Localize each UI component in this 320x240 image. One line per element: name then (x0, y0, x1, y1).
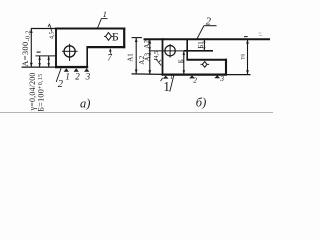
svg-text:Б: Б (177, 59, 185, 63)
svg-text:2: 2 (193, 76, 197, 85)
svg-text:4,5: 4,5 (50, 32, 56, 40)
svg-text:2: 2 (206, 17, 212, 28)
svg-text:А3: А3 (144, 52, 152, 61)
svg-text:7: 7 (107, 53, 112, 63)
svg-text:Тб: Тб (241, 54, 246, 60)
svg-text:Б: Б (112, 29, 119, 43)
svg-text:Б=100+0,15: Б=100+0,15 (37, 74, 46, 112)
svg-text:2: 2 (58, 79, 64, 90)
svg-text:4,5: 4,5 (154, 51, 160, 59)
svg-text:1: 1 (170, 74, 173, 81)
svg-text:1: 1 (103, 9, 107, 19)
svg-text:3: 3 (219, 74, 224, 83)
svg-text:1: 1 (65, 72, 70, 82)
svg-text:А2: А2 (143, 40, 151, 49)
svg-text:1: 1 (163, 79, 170, 94)
svg-text:А1: А1 (127, 53, 135, 62)
svg-text:2: 2 (75, 71, 80, 81)
svg-text:б): б) (196, 96, 206, 110)
svg-text:а): а) (80, 97, 90, 111)
svg-text:3: 3 (85, 71, 91, 81)
svg-text:А=300-0,2: А=300-0,2 (20, 30, 32, 67)
svg-text:Б1: Б1 (197, 41, 205, 49)
